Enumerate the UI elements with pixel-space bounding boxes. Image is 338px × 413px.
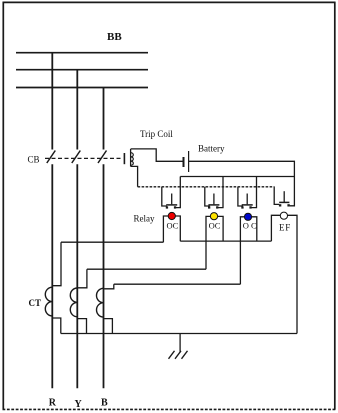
svg-text:EF: EF [279,223,291,233]
svg-text:O C: O C [243,221,257,231]
svg-text:CB: CB [28,155,40,165]
svg-text:Trip Coil: Trip Coil [140,129,173,139]
svg-text:BB: BB [107,31,122,43]
svg-text:Relay: Relay [134,214,155,224]
svg-text:Battery: Battery [198,144,225,154]
svg-text:Y: Y [75,399,83,410]
svg-text:OC: OC [167,221,179,231]
svg-text:B: B [101,398,108,409]
svg-text:OC: OC [209,221,221,231]
svg-text:CT: CT [29,298,42,308]
svg-text:R: R [49,398,57,409]
